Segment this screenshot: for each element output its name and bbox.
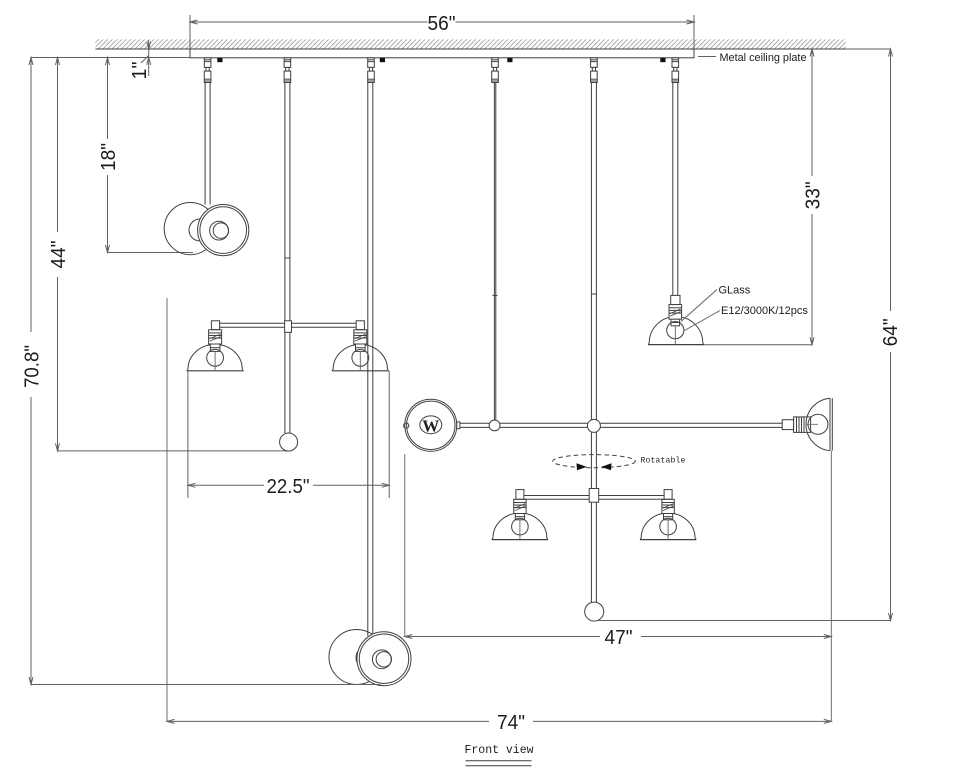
rod 3 [368, 83, 373, 637]
lamp E right dome [640, 513, 696, 540]
svg-text:70.8": 70.8" [21, 345, 43, 388]
rod 6 [673, 83, 678, 296]
lamp B right dome [332, 344, 389, 370]
svg-text:1": 1" [129, 62, 151, 80]
disc lamp F hole [372, 650, 391, 669]
lamp D bulb [806, 414, 828, 434]
metal ceiling plate label leader [698, 56, 716, 58]
dimension 74in line [167, 719, 831, 723]
disc lamp A right disc [198, 205, 249, 256]
dimension 74in extension left [166, 298, 168, 721]
rod 4 [494, 83, 495, 420]
disc lamp A bulb [189, 219, 211, 241]
dimension 1in leader [141, 56, 149, 64]
svg-text:Front view: Front view [464, 744, 533, 757]
dimension 22.5in extension left [187, 371, 189, 498]
dimension 47in extension left [404, 454, 406, 637]
lamp D W inner circle [420, 416, 442, 434]
dimension 44in bottom extension [58, 450, 291, 452]
label E12 [721, 305, 808, 317]
dimension 56in line [190, 20, 694, 24]
ceiling hanger 5 [591, 58, 598, 83]
lamp E ball [585, 602, 604, 621]
lamp E left arm connector [516, 490, 524, 500]
lamp D end connector [782, 420, 793, 430]
ceiling hanger 2 [284, 58, 291, 83]
dimension 18in line [106, 58, 110, 253]
dimension 22.5in extension right [388, 371, 390, 498]
svg-text:33": 33" [802, 181, 824, 209]
lamp D W knob [404, 423, 409, 428]
svg-text:18": 18" [98, 143, 120, 171]
rotation arrow left [577, 463, 587, 470]
lamp B bar [213, 323, 363, 327]
rod 5 joint [591, 293, 596, 295]
lamp D side dome [806, 398, 832, 450]
disc lamp A left disc [164, 203, 216, 255]
lamp E left dome [492, 513, 548, 540]
label GLass [719, 285, 751, 297]
dimension 70.8in bottom extension [31, 684, 381, 686]
lamp C socket [667, 305, 684, 344]
lamp B right socket [352, 330, 369, 371]
dimension 44in text [48, 241, 70, 269]
svg-text:47": 47" [605, 627, 633, 649]
ceiling hanger 4 [492, 58, 499, 83]
screw 1 [218, 58, 222, 61]
dimension 22.5in line [188, 483, 389, 487]
dimension 74in text [497, 712, 525, 734]
ceiling hanger 3 [368, 58, 375, 83]
svg-text:56": 56" [428, 13, 456, 35]
rod 2 lower [285, 332, 290, 433]
svg-text:64": 64" [880, 318, 902, 346]
dimension 64in bottom extension [599, 620, 891, 622]
dimension 18in text [98, 143, 120, 171]
rod 5 lower [591, 502, 596, 602]
lamp D ball joint 1 [489, 420, 500, 431]
rotation arrow right [601, 463, 611, 470]
dimension 33in text [802, 181, 824, 209]
lamp D arm bar [460, 423, 794, 427]
dimension 33in bottom extension [703, 344, 812, 346]
lamp D W ring [405, 399, 457, 451]
extension line dome right [830, 451, 832, 722]
screw 4 [661, 58, 665, 61]
disc lamp F right disc [357, 632, 411, 686]
svg-text:44": 44" [48, 241, 70, 269]
lamp B left socket [207, 330, 224, 371]
lamp B left dome [187, 344, 244, 370]
svg-text:22.5": 22.5" [267, 476, 310, 498]
ceiling extension right [846, 48, 891, 50]
rotation ellipse [553, 455, 636, 468]
screw 2 [380, 58, 384, 61]
lamp E right arm connector [664, 490, 672, 500]
rod 2 joint [285, 257, 290, 259]
lamp B left arm connector [211, 321, 219, 330]
lamp D hub connector [457, 422, 460, 429]
lamp E bar [517, 496, 673, 500]
dimension 47in line [405, 635, 832, 639]
ceiling hanger 1 [204, 58, 211, 83]
ceiling line [96, 48, 846, 50]
dimension 1in text [129, 62, 151, 80]
label Rotatable [641, 457, 686, 466]
svg-text:74": 74" [497, 712, 525, 734]
svg-text:Metal ceiling plate: Metal ceiling plate [720, 52, 807, 64]
lamp B center connector [285, 321, 292, 333]
svg-text:W: W [422, 416, 439, 435]
extension line plate level left [31, 57, 190, 59]
ceiling hanger 6 [672, 58, 679, 83]
label E12 leader [685, 311, 721, 331]
disc lamp F left disc [329, 630, 384, 685]
lamp E center connector [589, 489, 599, 503]
disc lamp F bulb [356, 647, 378, 669]
dimension 56in extension right [693, 15, 695, 49]
disc lamp A hole [210, 221, 229, 240]
dimension 47in text [605, 627, 633, 649]
lamp E right socket [660, 499, 677, 539]
screw 3 [508, 58, 512, 61]
lamp E left socket [512, 499, 529, 539]
lamp B ball [280, 433, 298, 451]
lamp D socket [794, 417, 811, 433]
svg-text:E12/3000K/12pcs: E12/3000K/12pcs [721, 305, 808, 317]
dimension 56in text [428, 13, 456, 35]
metal ceiling plate [190, 49, 694, 58]
dimension 70.8in line [29, 58, 33, 685]
label GLass leader [681, 290, 717, 322]
rod 1 [205, 83, 210, 205]
ceiling hatch [96, 39, 846, 49]
lamp C dome [648, 317, 704, 345]
rod 4 joint [493, 294, 498, 296]
title underline 1 [466, 760, 532, 762]
title underline 2 [466, 765, 532, 767]
lamp D ball joint 2 [587, 419, 600, 432]
dimension 22.5in text [267, 476, 310, 498]
lamp D W glyph [422, 416, 439, 435]
dimension 33in line [810, 49, 814, 345]
title Front view [464, 744, 533, 757]
dimension 1in line [147, 40, 151, 76]
dimension 56in extension left [189, 15, 191, 49]
svg-text:GLass: GLass [719, 285, 751, 297]
dimension 64in text [880, 318, 902, 346]
dimension 64in line [889, 49, 893, 621]
rod 5 upper [591, 83, 596, 489]
lamp B right arm connector [356, 321, 364, 330]
metal ceiling plate label [720, 52, 807, 64]
dimension 44in line [56, 58, 60, 451]
rod 2 upper [285, 83, 290, 321]
dimension 70.8in text [21, 345, 43, 388]
lamp C connector [671, 295, 680, 304]
svg-text:Rotatable: Rotatable [641, 457, 686, 466]
dimension 18in bottom extension [108, 252, 194, 254]
